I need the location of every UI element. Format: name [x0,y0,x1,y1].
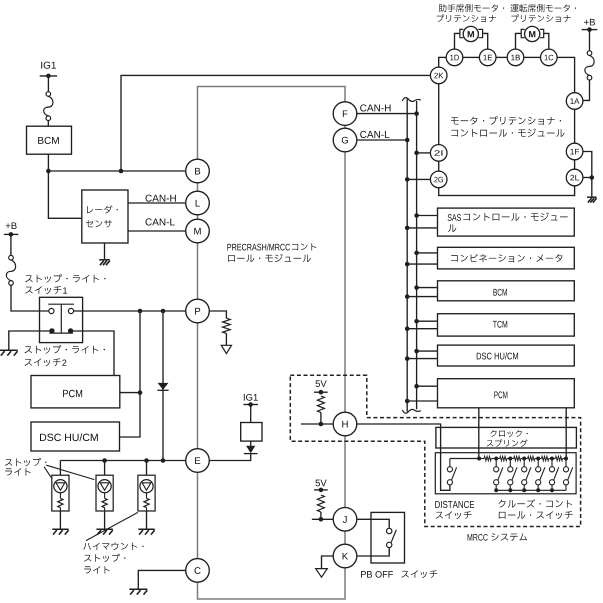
ground (2L) [587,197,597,202]
junction dot 5V J [319,517,324,522]
wire arrow to box [250,441,252,446]
wire 5V to J [312,518,333,520]
twisted pair mark bottom [402,409,421,413]
pin H [333,412,357,436]
label cruise control switch [499,499,573,519]
junction dot E-row diode [161,458,166,463]
box DSC HU/CM (right) [405,345,574,366]
ground (pin C) [129,589,147,594]
junction dot E-row lamp2 [102,458,107,463]
terminal +B left [4,232,18,237]
switch terminal 1 [49,308,54,313]
junction dot E-row lamp3 [144,458,149,463]
label high-mount stop light [83,542,143,573]
box radar sensor [82,190,128,243]
CAN-H bus line [416,101,418,409]
label CAN-H (radar) [146,195,176,202]
wire K to arrow [322,556,334,568]
label IG1 (branch) [244,394,258,401]
junction dot 2L [590,175,595,180]
wire 2I to bus [417,152,431,154]
pointer line to lamp1 [44,467,51,478]
wire branch x163 (diode) [162,311,164,461]
PB switch lever [391,530,396,543]
wire E row [60,460,185,462]
junction dot PCM [138,390,143,395]
resistor R-J [317,495,324,512]
open arrow (to other circuit) [221,345,231,353]
wire fuse to 1A [583,80,589,101]
wire switch to P row [74,310,186,312]
pin F [333,102,357,126]
pointer line to lamp2 [46,465,94,479]
motor M2 (driver) [521,26,544,41]
box PCM (left) [31,376,120,408]
label driver motor [511,4,577,22]
lamp high-mount stop light [138,461,155,535]
junction dot P-row x163 [161,309,166,314]
diode D1 [157,383,168,390]
junction dot at BCM [46,169,51,174]
pin 1E [479,49,496,66]
wire 5V to H [301,423,333,425]
wire E to IG1 box [210,453,251,460]
lamp stop light 2 [96,461,113,535]
box PCM (right) [405,379,574,408]
cruise switch 1 [494,459,503,485]
pin L [186,191,210,215]
pin G [333,128,357,152]
terminal IG1 (branch) [243,402,258,407]
fuse F01 [44,92,53,121]
PB switch terminal lower [387,542,392,547]
box clock spring [436,427,577,448]
box IG1 device [241,423,262,442]
wire F to CAN-H bus [357,113,417,115]
open arrow (K) [316,569,328,578]
motor M1 (passenger) [460,26,483,41]
wire CAN-H radar to L [128,202,186,204]
wire resistor branch of P [210,311,227,318]
junction dot P-row x140 [138,309,143,314]
wire G to CAN-L bus [357,139,407,141]
pin 1D [446,49,463,66]
wire M2 to 1C [544,33,549,49]
box DSC HU/CM (left) [31,422,120,451]
terminal IG1 [40,74,57,79]
wire node to radar sensor [48,171,81,218]
PB switch terminal upper [387,528,392,533]
wire PCM to switch bus 2 [565,408,567,459]
pin C [186,559,210,583]
fuse F03 [585,51,594,80]
box BCM (right) [405,281,574,301]
wire radar to ground [104,243,106,260]
cruise switch 2 [508,459,517,485]
pin M [186,219,210,243]
label stop light switch 2 [25,345,105,366]
label 5V (H) [315,380,326,387]
switch contact dot 1 [49,328,54,333]
wire switch2 to PCM [73,331,114,376]
wire H to distance switch [357,424,450,490]
pin 2I [430,145,447,162]
fuse F02 [6,255,15,285]
label +B (left) [6,222,17,229]
cruise switch return bus [494,485,566,492]
module motor pretensioner box [439,57,575,195]
wire 2G to bus [407,178,430,180]
pin 1C [541,49,558,66]
label radar sensor [86,205,118,227]
label CAN-L (G) [360,131,389,138]
label PB OFF switch [361,570,437,578]
label clock spring [487,430,528,447]
module PRECRASH/MRCC box [198,87,346,600]
wire IG1 to fuse [47,76,49,92]
twisted pair mark top [402,98,421,102]
pin 2G [430,171,447,188]
box BCM (left) [27,126,72,154]
cruise switch 5 [549,459,558,485]
label 5V (J) [315,480,326,487]
switch ladder bus + resistors [450,456,568,460]
wire res to wire [320,413,322,425]
wire fuse to BCM [47,121,49,127]
label passenger motor [437,4,505,22]
wire M1 to 1D [455,33,460,49]
junction dot 2G [405,177,410,182]
wire node to ground [591,178,593,197]
wire M1 to 1E [483,33,488,49]
diode D2 (IG1 feed) [244,446,258,454]
wire PB switch to K [357,548,389,556]
resistor R-P [223,318,231,333]
wire 2L to node [583,177,592,179]
label PRECRASH/MRCC [227,243,316,262]
box stop light switch [40,297,83,342]
DISTANCE switch [447,459,456,485]
box PB OFF switch [371,512,405,563]
cruise switch 6 [563,459,572,485]
label +B (right) [584,19,595,26]
label module pretensioner [451,116,565,137]
wire PCM to node [120,392,140,394]
label stop light switch 1 [25,274,105,294]
wire +B to fuse right [589,30,591,51]
CAN-L bus line [406,99,408,412]
cruise switch 4 [536,459,545,485]
wire C to ground [138,570,185,588]
wire fuse to switch [11,285,49,311]
terminal +B right [582,27,598,32]
wire node to pin B [48,170,185,172]
junction dot CAN-H F [414,111,419,116]
cruise switch 3 [522,459,531,485]
box combination meter [405,247,574,269]
label MRCC system [468,533,528,541]
wire switch to ground [9,331,49,350]
resistor R-H [317,396,324,413]
terminal 5V J [314,488,328,493]
wire CAN-L radar to M [128,230,186,232]
terminal 5V H [314,390,328,395]
junction dot B-row [119,169,124,174]
lamp stop light 1 [52,461,69,535]
pin P [186,299,210,323]
label stop light [5,458,46,476]
pin 1A [566,93,583,110]
wire PCM to switch bus 1 [478,408,480,459]
label IG1 [41,62,56,69]
junction dot 5V H [319,422,324,427]
pin 1B [507,49,524,66]
pin J [333,508,357,532]
wire +B to fuse [10,234,12,255]
box SAS control module [405,208,574,236]
ground (stop light switch) [0,350,18,355]
switch terminal 2 [68,308,73,313]
wire M2 to 1B [516,33,522,49]
pin 1F [566,143,583,160]
switch contact dot 2 [68,328,73,333]
label CAN-H (F) [360,104,390,111]
wire branch x140 [120,311,141,437]
pin K [333,544,357,568]
ground (radar sensor) [99,260,110,265]
junction dot 2I [414,151,419,156]
label CAN-L (radar) [146,218,175,225]
switch contact bar [48,304,74,333]
box TCM [405,314,574,336]
box switch assembly [435,453,576,494]
pin 2L [566,169,583,186]
wire to 2K [121,75,430,171]
pin 2K [430,67,447,84]
pin B [186,159,210,183]
wire box to IG1 [250,405,252,423]
wire 1F to node [583,152,592,178]
pointer line to lamp3 [86,512,138,540]
label DISTANCE switch [435,501,474,519]
junction dot CAN-L G [405,138,410,143]
wire resistor to arrow [225,333,227,345]
wire J to PB switch [357,519,389,528]
wire res to J node [320,512,322,519]
pin E [186,449,210,473]
dashed boundary MRCC system [290,375,580,526]
wire BCM to node [47,154,49,171]
